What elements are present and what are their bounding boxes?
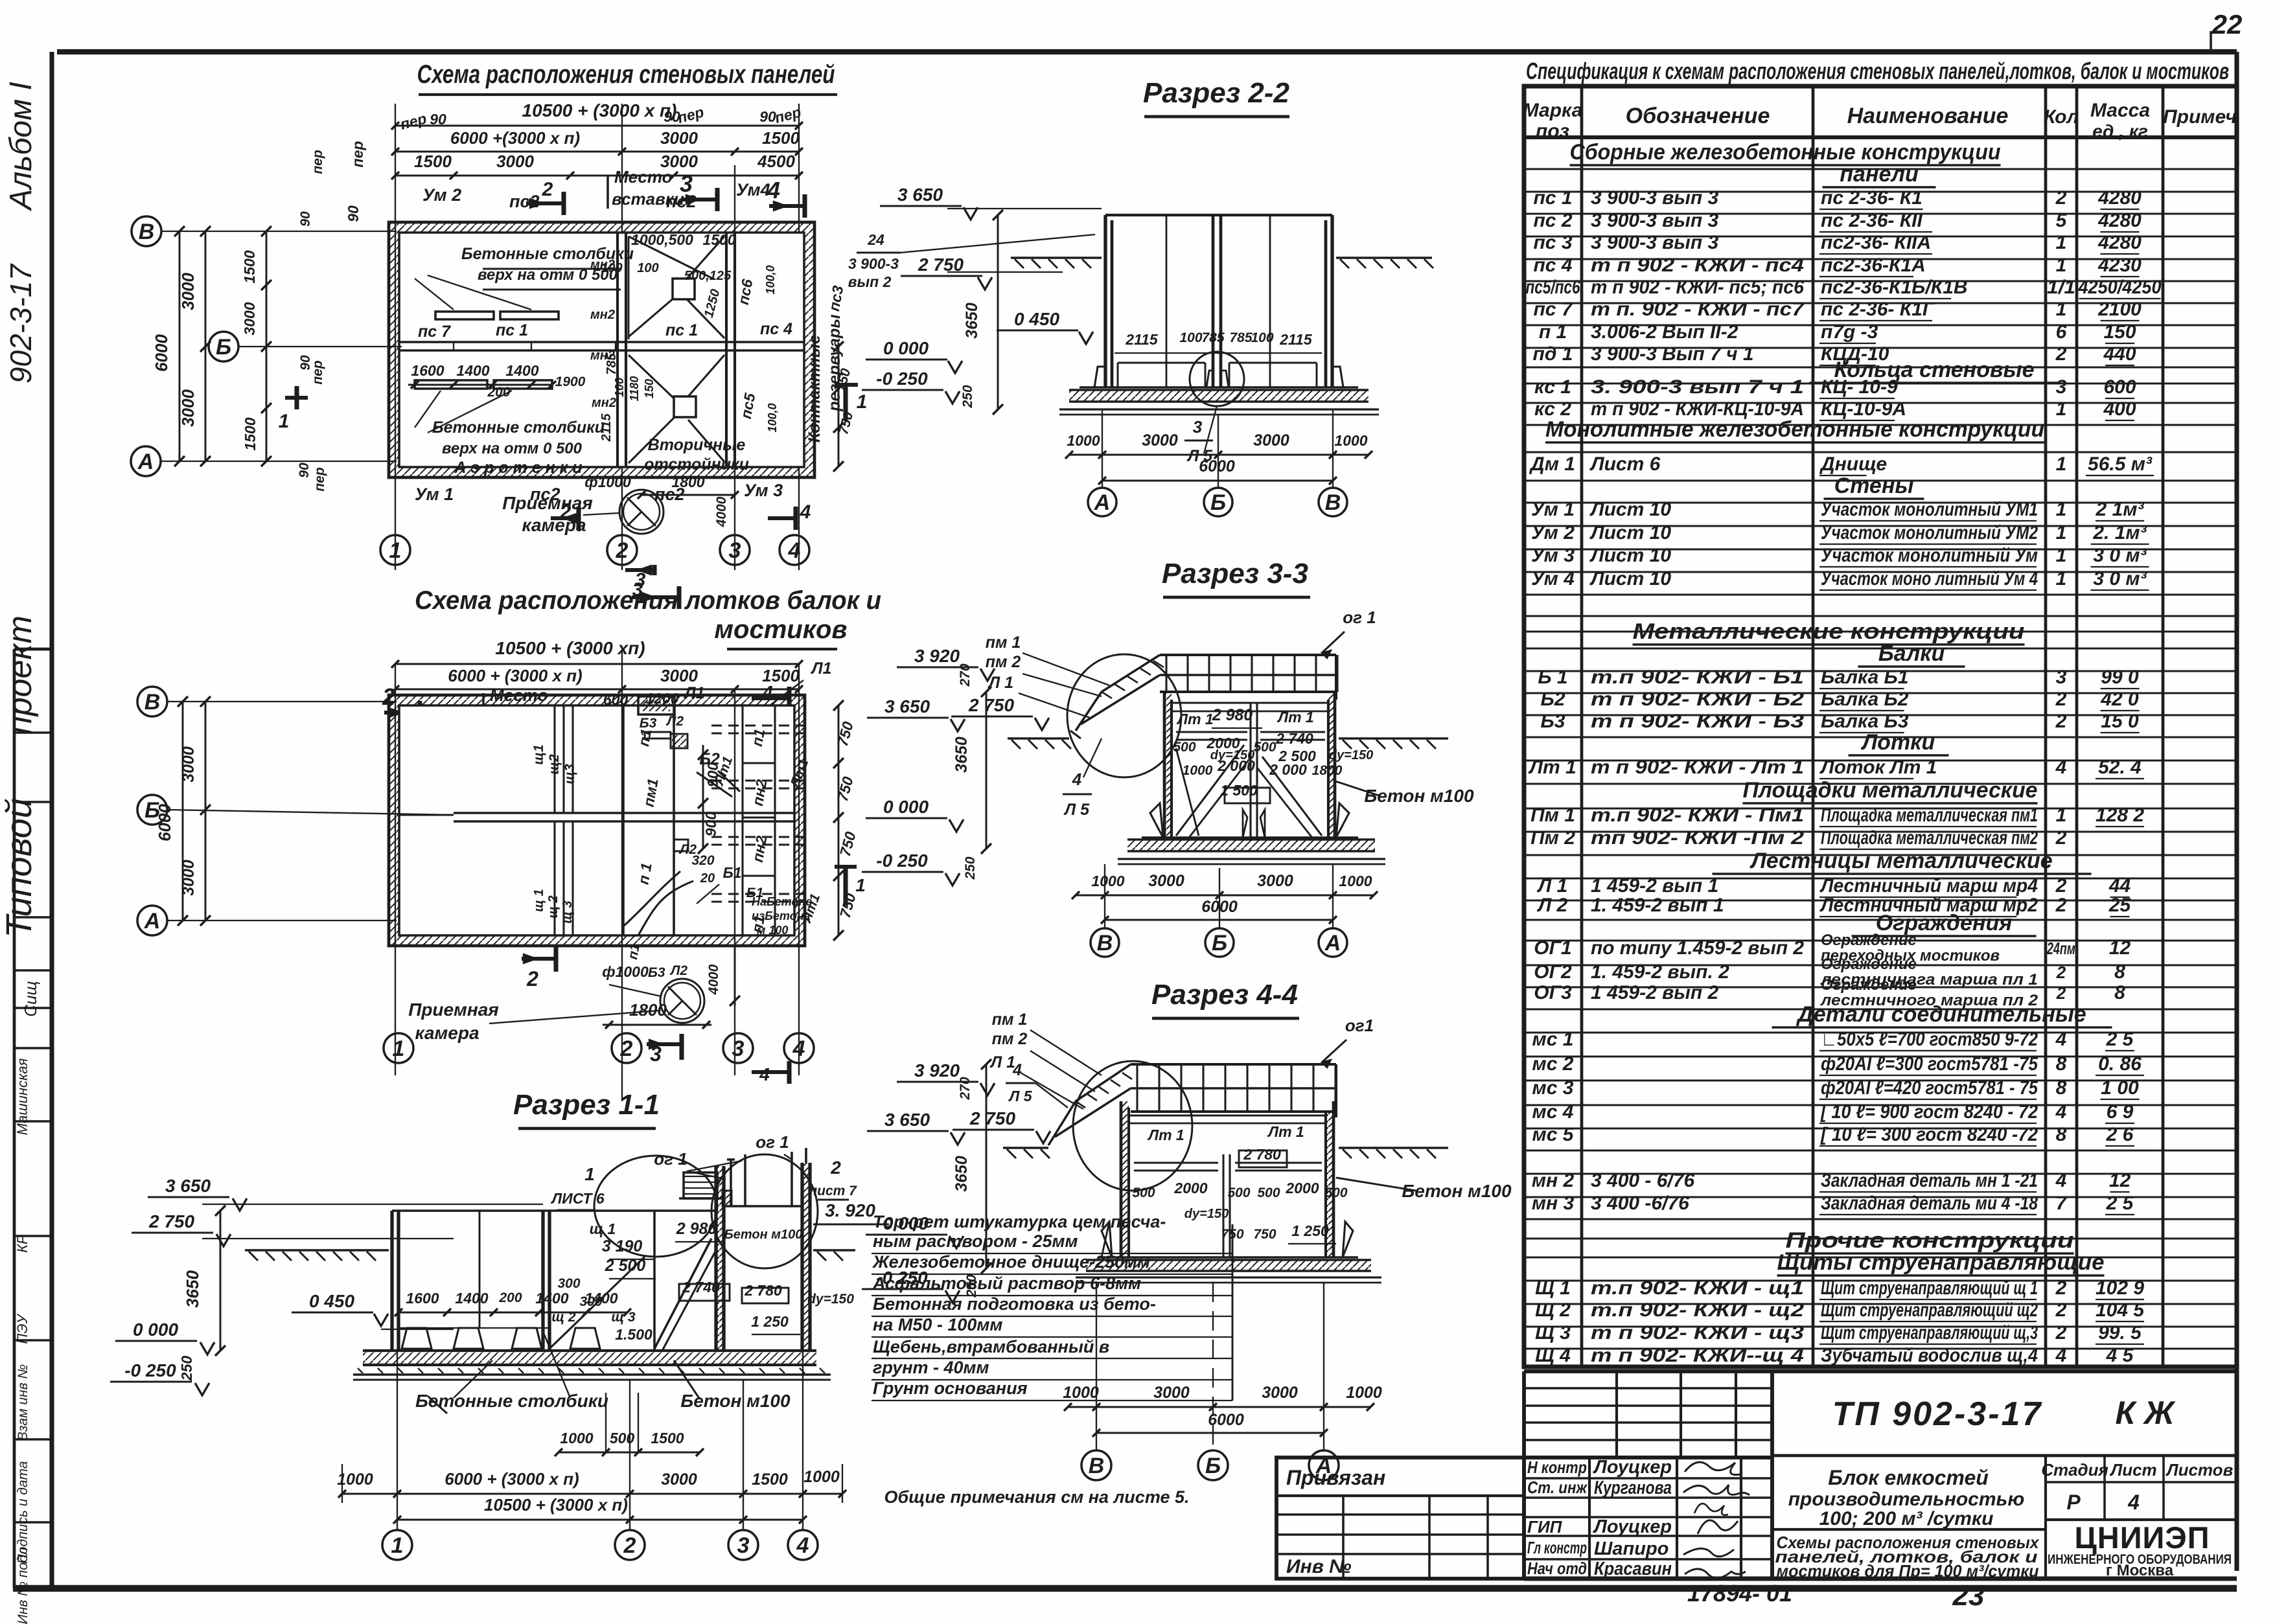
svg-text:2: 2 <box>2055 875 2067 897</box>
svg-text:НаБетоне: НаБетоне <box>752 895 812 908</box>
svg-text:Блок емкостей: Блок емкостей <box>1828 1466 1989 1489</box>
svg-text:4 5: 4 5 <box>2106 1345 2134 1366</box>
svg-text:т.п 902- КЖИ - щ2: т.п 902- КЖИ - щ2 <box>1591 1299 1804 1321</box>
svg-text:Ум4: Ум4 <box>736 180 770 200</box>
svg-text:ОГ3: ОГ3 <box>1534 982 1572 1003</box>
svg-text:1000: 1000 <box>1183 763 1213 778</box>
svg-text:Щебень,втрамбованный в: Щебень,втрамбованный в <box>873 1337 1109 1356</box>
svg-text:Детали соединительные: Детали соединительные <box>1796 1002 2086 1027</box>
svg-text:пс 2: пс 2 <box>1533 210 1572 231</box>
plan 1 secondary settler funnel lower <box>629 355 724 463</box>
привязан box <box>1276 1458 1524 1579</box>
svg-text:камера: камера <box>522 515 586 535</box>
plan 1 concrete posts upper pair <box>415 245 634 319</box>
svg-text:1900: 1900 <box>555 374 586 389</box>
section 1-1 tank walls <box>392 1163 810 1351</box>
section 4-4 label бетон м100 <box>1336 1178 1512 1201</box>
svg-text:270: 270 <box>958 1077 973 1100</box>
svg-text:102 9: 102 9 <box>2096 1277 2144 1299</box>
svg-text:пс 1: пс 1 <box>665 321 698 339</box>
svg-text:6000 +(3000 х п): 6000 +(3000 х п) <box>450 128 580 148</box>
svg-text:А: А <box>137 450 154 474</box>
svg-text:мс 2: мс 2 <box>1532 1053 1574 1075</box>
svg-text:15 0: 15 0 <box>2101 711 2139 732</box>
svg-text:100: 100 <box>613 378 626 397</box>
svg-text:2 000: 2 000 <box>1269 761 1307 778</box>
svg-text:6000 + (3000 х п): 6000 + (3000 х п) <box>448 666 582 685</box>
svg-text:2. 1м³: 2. 1м³ <box>2092 522 2147 543</box>
plan 1 title: Схема расположения стеновых панелей <box>417 60 838 95</box>
svg-text:Нач отд: Нач отд <box>1527 1559 1587 1578</box>
section 1-1 top deck lines <box>398 1206 802 1211</box>
section 3-3 detail ellipse <box>1067 654 1181 777</box>
svg-text:104 5: 104 5 <box>2096 1299 2145 1321</box>
svg-text:2: 2 <box>542 179 553 200</box>
svg-text:Стадия: Стадия <box>2041 1460 2108 1480</box>
svg-text:3 0 м³: 3 0 м³ <box>2093 568 2147 589</box>
svg-text:щ 2: щ 2 <box>546 895 560 918</box>
svg-text:6000: 6000 <box>152 334 171 372</box>
svg-text:6 9: 6 9 <box>2107 1101 2134 1123</box>
spec table title <box>1526 58 2229 84</box>
plan 2 outer tank walls <box>389 695 805 946</box>
svg-text:1: 1 <box>2056 453 2067 475</box>
svg-text:Стены: Стены <box>1834 474 1914 498</box>
plan 1 left axis circle А <box>131 446 161 476</box>
svg-text:42 0: 42 0 <box>2100 689 2139 710</box>
section 3-3 axis circles <box>1091 928 1347 957</box>
svg-text:4: 4 <box>2127 1491 2140 1514</box>
svg-text:3: 3 <box>2056 376 2067 398</box>
svg-text:2: 2 <box>620 1036 633 1061</box>
svg-text:Щит струенаправляющий щ,3: Щит струенаправляющий щ,3 <box>1821 1322 2038 1344</box>
plan 1 cut mark 1 right <box>835 385 867 421</box>
svg-text:3650: 3650 <box>953 737 971 773</box>
svg-text:изБетона: изБетона <box>752 909 811 922</box>
svg-text:3 920: 3 920 <box>914 1060 960 1081</box>
svg-text:Лист 10: Лист 10 <box>1589 499 1671 520</box>
svg-text:3000: 3000 <box>496 152 534 171</box>
section 3-3 stair flight <box>1070 655 1164 738</box>
svg-text:Щит струенаправляющий щ2: Щит струенаправляющий щ2 <box>1821 1299 2038 1321</box>
svg-text:0 000: 0 000 <box>133 1320 178 1340</box>
section 1-1 label бетон м100 <box>674 1360 791 1411</box>
svg-text:100; 200 м³ /сутки: 100; 200 м³ /сутки <box>1819 1508 1994 1529</box>
section 2-2 inner dims <box>1114 330 1322 353</box>
svg-text:1400: 1400 <box>584 1290 618 1307</box>
svg-text:3 900-3: 3 900-3 <box>848 255 899 272</box>
plan 2 dimension chain 6000/3000/1500 <box>391 666 803 693</box>
svg-text:Щит струенаправляющий щ 1: Щит струенаправляющий щ 1 <box>1821 1277 2038 1299</box>
svg-text:3. 900-3 вып 7 ч 1: 3. 900-3 вып 7 ч 1 <box>1591 376 1804 398</box>
svg-text:4280: 4280 <box>2097 187 2142 209</box>
svg-text:dу=150: dу=150 <box>1184 1207 1229 1221</box>
svg-text:0 000: 0 000 <box>883 797 929 817</box>
svg-text:4: 4 <box>792 1036 805 1061</box>
svg-text:3000: 3000 <box>1257 872 1293 890</box>
svg-text:Лоуцкер: Лоуцкер <box>1593 1457 1672 1478</box>
svg-text:320: 320 <box>691 853 714 868</box>
svg-text:Л 1: Л 1 <box>989 1053 1015 1071</box>
svg-text:Балка Б2: Балка Б2 <box>1821 689 1909 710</box>
section 3-3 label бетон м100 <box>1334 781 1474 806</box>
svg-text:1: 1 <box>2056 255 2067 276</box>
plan 1 left axis circle Б <box>209 332 238 361</box>
svg-text:пер: пер <box>310 150 325 174</box>
svg-text:2: 2 <box>623 1533 636 1558</box>
svg-text:т п 902- КЖИ - Б3: т п 902- КЖИ - Б3 <box>1591 711 1804 732</box>
svg-text:Б1: Б1 <box>722 864 741 881</box>
svg-text:отстойники: отстойники <box>644 455 749 474</box>
section 4-4 title <box>1151 979 1299 1018</box>
section 4-4 trays <box>1134 1123 1322 1171</box>
section 2-2 title <box>1143 77 1289 117</box>
plan 2 dim 600 1200 <box>599 690 707 715</box>
svg-text:1. 459-2 вып. 2: 1. 459-2 вып. 2 <box>1591 961 1729 983</box>
svg-text:1600: 1600 <box>406 1290 439 1307</box>
section 4-4 labels пм1 пм2 Л1 <box>989 1011 1102 1109</box>
svg-text:Лист: Лист <box>2109 1460 2156 1480</box>
section 4-4 axis circles <box>1081 1450 1339 1480</box>
svg-text:Участок моно литный Ум 4: Участок моно литный Ум 4 <box>1821 568 2038 589</box>
svg-text:3 650: 3 650 <box>165 1176 211 1196</box>
section 3-3 detail label 4 Л5 <box>1063 738 1102 819</box>
svg-text:2 780: 2 780 <box>744 1282 782 1299</box>
svg-text:Б3: Б3 <box>1541 711 1565 732</box>
svg-text:т.п 902- КЖИ - щ1: т.п 902- КЖИ - щ1 <box>1591 1277 1804 1299</box>
svg-text:500: 500 <box>1227 1185 1250 1200</box>
plan 2 cut mark 1 right <box>835 867 866 906</box>
svg-text:3000: 3000 <box>178 389 198 427</box>
plan 1 outer tank walls <box>389 222 814 477</box>
svg-text:52. 4: 52. 4 <box>2098 757 2142 778</box>
svg-text:Лестницы металлические: Лестницы металлические <box>1749 849 2052 873</box>
svg-text:Бетон м100: Бетон м100 <box>1364 786 1474 806</box>
svg-text:0 450: 0 450 <box>309 1291 354 1311</box>
svg-text:панели: панели <box>1840 162 1919 187</box>
svg-text:Вторичные: Вторичные <box>648 436 746 454</box>
svg-text:на М50 - 100мм: на М50 - 100мм <box>873 1315 1002 1334</box>
svg-text:Лист 10: Лист 10 <box>1589 545 1671 566</box>
svg-text:3 900-3 вып 3: 3 900-3 вып 3 <box>1591 187 1718 209</box>
svg-text:0 450: 0 450 <box>1014 309 1059 329</box>
svg-text:3000: 3000 <box>179 746 198 783</box>
svg-text:10500 + (3000 х п): 10500 + (3000 х п) <box>484 1495 628 1515</box>
plan 2 note Место вставки <box>483 685 560 727</box>
section 2-2 bottom dims <box>1065 409 1372 487</box>
plan 2 top dimension chain 10500 <box>391 638 803 668</box>
svg-text:Общие примечания см на ли: Общие примечания см на листе 5. <box>884 1487 1189 1507</box>
svg-text:Щ 1: Щ 1 <box>1535 1277 1571 1299</box>
svg-text:Л 5: Л 5 <box>1063 801 1090 819</box>
plan 1 top labels Ум2 пс2 <box>345 103 803 222</box>
svg-text:пс 4: пс 4 <box>760 320 792 338</box>
svg-text:А: А <box>1094 490 1111 515</box>
svg-text:0 000: 0 000 <box>883 1213 929 1233</box>
svg-text:щ2: щ2 <box>547 754 562 775</box>
section 2-2 leader 24 3900-3 вып2 <box>848 231 1095 290</box>
svg-text:пс2-36- КIIА: пс2-36- КIIА <box>1821 232 1931 253</box>
section 1-1 railing ог1 left <box>654 1149 745 1206</box>
svg-text:пм 2: пм 2 <box>992 1030 1028 1048</box>
svg-text:8: 8 <box>2056 1053 2067 1075</box>
svg-text:ОГ2: ОГ2 <box>1534 961 1572 983</box>
svg-text:Днище: Днище <box>1819 453 1887 475</box>
plan 1 inner wall on axis 2 <box>618 233 626 467</box>
plan 1 cut mark 3 top <box>715 188 719 211</box>
svg-text:3.006-2 Вып II-2: 3.006-2 Вып II-2 <box>1591 321 1738 343</box>
section 4-4 bottom dims <box>1063 1283 1382 1450</box>
svg-text:Спецификация к схемам располож: Спецификация к схемам расположения стено… <box>1526 58 2229 84</box>
svg-text:500: 500 <box>1132 1185 1155 1200</box>
svg-text:3 400 - 6/76: 3 400 - 6/76 <box>1591 1170 1694 1191</box>
svg-text:1000: 1000 <box>1091 873 1124 889</box>
svg-text:Приемная: Приемная <box>408 1000 499 1020</box>
svg-text:1000: 1000 <box>1067 432 1100 449</box>
plan 1 cut mark 1 left <box>279 386 308 432</box>
svg-text:8: 8 <box>2114 961 2125 983</box>
plan 1 bottom axis circles <box>380 535 809 565</box>
svg-text:пс 7: пс 7 <box>418 323 451 341</box>
svg-text:1 00: 1 00 <box>2101 1077 2139 1099</box>
svg-text:1. 459-2 вып 1: 1. 459-2 вып 1 <box>1591 895 1724 916</box>
svg-text:пс2: пс2 <box>509 192 540 211</box>
section 2-2 floor and base <box>1059 363 1379 415</box>
svg-text:5: 5 <box>2056 210 2068 231</box>
svg-text:1000: 1000 <box>1346 1384 1382 1402</box>
svg-text:1000,500: 1000,500 <box>631 231 693 248</box>
svg-text:Сищ: Сищ <box>21 981 40 1016</box>
svg-text:пс5/пс6: пс5/пс6 <box>1526 277 1580 298</box>
svg-text:1: 1 <box>2056 232 2067 253</box>
svg-text:2: 2 <box>2055 689 2067 710</box>
svg-text:200: 200 <box>498 1290 522 1305</box>
svg-text:2: 2 <box>2055 827 2067 849</box>
svg-text:Лт 1: Лт 1 <box>1176 711 1213 727</box>
svg-text:100,0: 100,0 <box>766 403 779 432</box>
svg-text:1800: 1800 <box>629 1000 667 1020</box>
svg-text:Щиты струенаправляющие: Щиты струенаправляющие <box>1777 1250 2105 1275</box>
svg-text:[ 10 ℓ= 900 гост 8240 -: [ 10 ℓ= 900 гост 8240 - 72 <box>1820 1101 2038 1123</box>
section 2-2 axis circles <box>1088 488 1347 516</box>
svg-text:пс 2-36- К1: пс 2-36- К1 <box>1821 187 1923 209</box>
svg-text:Щ 4: Щ 4 <box>1535 1345 1571 1366</box>
svg-text:1600: 1600 <box>411 362 444 379</box>
svg-text:3000: 3000 <box>241 302 258 335</box>
svg-text:1: 1 <box>279 411 290 432</box>
svg-text:-0 250: -0 250 <box>876 851 928 871</box>
svg-text:В: В <box>144 690 161 715</box>
svg-text:100: 100 <box>1179 330 1202 345</box>
svg-text:1400: 1400 <box>456 362 489 379</box>
svg-text:2 740: 2 740 <box>1275 730 1313 747</box>
svg-text:А э р о т е н к и: А э р о т е н к и <box>454 459 582 477</box>
svg-text:резервуары: резервуары <box>826 314 844 411</box>
section 1-1 title <box>513 1089 660 1128</box>
section 1-1 railing ог1 right <box>756 1132 806 1206</box>
svg-text:Б: Б <box>1205 1454 1221 1478</box>
svg-text:Примеч: Примеч <box>2163 106 2237 128</box>
svg-text:-0 250: -0 250 <box>124 1360 176 1380</box>
title block signatures scribbles <box>1683 1462 1750 1578</box>
section 1-1 axis circles bottom <box>382 1530 818 1560</box>
svg-text:КЦ- 10-9: КЦ- 10-9 <box>1821 376 1898 398</box>
svg-text:пс 7: пс 7 <box>1533 299 1573 320</box>
plan 2 guide shield panels щ1 щ2 щ3 <box>531 705 577 935</box>
svg-text:100,0: 100,0 <box>764 265 777 294</box>
svg-text:4: 4 <box>796 1533 809 1558</box>
svg-text:1000: 1000 <box>803 1468 840 1486</box>
svg-text:2 750: 2 750 <box>918 255 964 275</box>
svg-text:4: 4 <box>759 1064 770 1084</box>
svg-text:1 250: 1 250 <box>751 1313 789 1330</box>
svg-text:0. 86: 0. 86 <box>2098 1053 2142 1075</box>
svg-text:4: 4 <box>788 538 801 563</box>
svg-text:2 980: 2 980 <box>1212 706 1253 724</box>
svg-text:3000: 3000 <box>1253 431 1289 450</box>
svg-text:пс 2-36- К1Г: пс 2-36- К1Г <box>1821 299 1935 320</box>
svg-text:ОГ1: ОГ1 <box>1534 937 1571 959</box>
plan 2 bottom axis circles <box>384 1033 814 1063</box>
svg-text:1: 1 <box>2056 568 2067 589</box>
svg-text:750: 750 <box>1253 1227 1276 1242</box>
svg-text:Лт 1: Лт 1 <box>1528 757 1576 778</box>
svg-text:270: 270 <box>958 663 973 687</box>
svg-text:Ст. инж: Ст. инж <box>1527 1478 1588 1497</box>
svg-text:п1: п1 <box>625 943 643 961</box>
svg-text:пс 4: пс 4 <box>1533 255 1572 276</box>
svg-text:Бетон м100: Бетон м100 <box>1402 1181 1512 1201</box>
svg-text:1: 1 <box>2056 499 2067 520</box>
svg-text:1: 1 <box>584 1164 595 1184</box>
plan 2 axis verticals <box>395 651 799 1101</box>
svg-text:Лестничный марш мр4: Лестничный марш мр4 <box>1819 875 2038 897</box>
svg-text:по типу 1.459-2 вып 2: по типу 1.459-2 вып 2 <box>1591 937 1804 959</box>
svg-text:Лоуцкер: Лоуцкер <box>1593 1516 1672 1537</box>
svg-text:600: 600 <box>2103 376 2136 398</box>
svg-text:щ3: щ3 <box>562 764 577 784</box>
svg-text:2100: 2100 <box>2097 299 2142 320</box>
svg-text:Обозначение: Обозначение <box>1626 104 1770 128</box>
section 4-4 stair flight <box>1048 1064 1132 1145</box>
svg-text:24пм: 24пм <box>2046 939 2075 958</box>
svg-text:500: 500 <box>1253 740 1276 755</box>
left margin small stamp labels <box>14 981 40 1624</box>
svg-text:4: 4 <box>1072 770 1082 789</box>
plan 1 inner wall on axis 3 <box>726 233 735 467</box>
svg-text:Грунт основания: Грунт основания <box>873 1378 1028 1398</box>
svg-text:пс 1: пс 1 <box>1533 187 1572 209</box>
svg-text:2: 2 <box>2055 187 2067 209</box>
svg-text:кс 1: кс 1 <box>1534 376 1571 398</box>
svg-text:440: 440 <box>2103 343 2136 365</box>
svg-text:Гл констр: Гл констр <box>1527 1538 1587 1557</box>
svg-text:Машинская: Машинская <box>14 1058 30 1135</box>
svg-text:т п 902 - КЖИ - пс4: т п 902 - КЖИ - пс4 <box>1591 255 1804 276</box>
svg-text:Н контр: Н контр <box>1527 1458 1587 1477</box>
plan 1 rotated label Контактные резервуары <box>805 314 844 442</box>
svg-text:Б3: Б3 <box>648 965 665 980</box>
section 4-4 walkway with railing <box>1131 1064 1336 1117</box>
svg-text:-0 250: -0 250 <box>876 369 928 389</box>
svg-text:128 2: 128 2 <box>2096 805 2144 826</box>
section 1-1 notes column (materials) <box>872 1212 1232 1401</box>
svg-text:3 0 м³: 3 0 м³ <box>2093 545 2147 566</box>
plan 2 cut mark 3 bottom <box>647 1034 682 1066</box>
svg-text:4000: 4000 <box>714 496 729 527</box>
svg-text:мн 3: мн 3 <box>1532 1193 1575 1214</box>
svg-text:мс 3: мс 3 <box>1532 1077 1574 1099</box>
svg-text:Наименование: Наименование <box>1847 104 2009 128</box>
section 1-1 concrete posts trapezoids <box>398 1328 600 1349</box>
svg-text:4: 4 <box>1012 1061 1022 1079</box>
svg-text:п7g -3: п7g -3 <box>1821 321 1878 343</box>
svg-text:пс 2-36- КII: пс 2-36- КII <box>1821 210 1923 231</box>
svg-text:мн 2: мн 2 <box>1532 1170 1575 1191</box>
svg-text:Ум 1: Ум 1 <box>1531 499 1575 520</box>
section 4-4 tank walls <box>1121 1101 1334 1257</box>
svg-text:ТП 902-3-17: ТП 902-3-17 <box>1832 1395 2043 1433</box>
section 4-4 level marks <box>862 1059 1050 1303</box>
title block institute name ЦНИИЭП <box>2048 1520 2232 1579</box>
svg-text:3 920: 3 920 <box>914 646 960 666</box>
svg-text:Листов: Листов <box>2165 1460 2234 1480</box>
svg-text:100: 100 <box>637 261 658 275</box>
svg-text:Л 2: Л 2 <box>1537 895 1568 916</box>
svg-text:ЦНИИЭП: ЦНИИЭП <box>2074 1520 2210 1555</box>
section 1-1 bottom slab hatched <box>353 1351 831 1380</box>
svg-text:20: 20 <box>700 871 715 886</box>
svg-text:902-3-17: 902-3-17 <box>4 264 38 384</box>
svg-text:2: 2 <box>830 1158 841 1178</box>
plan 2 left axis circles <box>137 687 454 935</box>
svg-text:17894- 01: 17894- 01 <box>1687 1580 1792 1607</box>
svg-text:3 900-3 вып 3: 3 900-3 вып 3 <box>1591 232 1718 253</box>
svg-text:3000: 3000 <box>660 128 698 148</box>
svg-text:1000: 1000 <box>1063 1384 1099 1402</box>
section 1-1 label бетонные столбики <box>415 1334 608 1413</box>
svg-text:90: 90 <box>297 463 312 478</box>
svg-text:пер: пер <box>349 141 366 168</box>
svg-text:пер: пер <box>312 467 327 492</box>
svg-text:Балка Б3: Балка Б3 <box>1821 711 1909 732</box>
plan 2 dims 900 900 <box>698 745 721 854</box>
section 4-4 floor slab feet and base <box>1076 1222 1381 1283</box>
svg-text:щ 1: щ 1 <box>532 889 546 911</box>
svg-text:4: 4 <box>2055 1101 2067 1123</box>
svg-text:3 900-3 Вып 7 ч 1: 3 900-3 Вып 7 ч 1 <box>1591 343 1754 365</box>
plan 2 middle wall <box>399 813 794 821</box>
plan 2 cut mark 3 top <box>632 579 679 609</box>
svg-text:г Москва: г Москва <box>2106 1562 2174 1579</box>
title block signature rows <box>1524 1457 1772 1579</box>
svg-text:12: 12 <box>2109 1170 2131 1191</box>
svg-text:4: 4 <box>2055 1345 2067 1366</box>
svg-text:т п 902- КЖИ--щ 4: т п 902- КЖИ--щ 4 <box>1591 1345 1804 1366</box>
svg-text:150: 150 <box>2103 321 2136 343</box>
svg-text:т п 902 - КЖИ- пс5; пс6: т п 902 - КЖИ- пс5; пс6 <box>1591 277 1804 298</box>
svg-text:ф20АI ℓ=420 гост5781 - 75: ф20АI ℓ=420 гост5781 - 75 <box>1821 1077 2038 1099</box>
spec table row separator lines <box>1524 169 2237 1349</box>
svg-text:250: 250 <box>960 385 975 408</box>
plan 1 right side dim 750 <box>833 341 856 472</box>
section 1-1 bottom dimension chains <box>337 1351 846 1530</box>
svg-text:1500: 1500 <box>242 417 259 450</box>
svg-text:1: 1 <box>2056 299 2067 320</box>
plan 2 приемная камера circle <box>602 963 704 1023</box>
svg-text:Ограждение: Ограждение <box>1821 932 1917 949</box>
svg-text:п 1: п 1 <box>1539 321 1567 343</box>
